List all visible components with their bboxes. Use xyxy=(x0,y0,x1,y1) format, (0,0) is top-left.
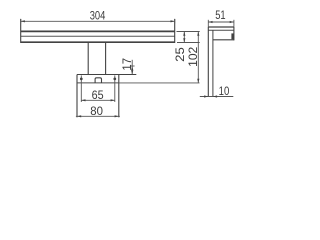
stem right edge xyxy=(105,43,107,75)
arrow 25 top xyxy=(183,32,185,36)
bracket left edge xyxy=(76,75,78,118)
arrow 80 left xyxy=(77,115,81,117)
dim line 25 xyxy=(183,32,185,43)
dim line 304 xyxy=(21,20,175,22)
stem left edge xyxy=(87,43,89,75)
dim line 102 xyxy=(197,32,199,83)
side right edge xyxy=(233,27,235,40)
ext tick 17 top xyxy=(130,65,135,67)
lamp bar top edge xyxy=(21,30,175,32)
lamp bar right edge xyxy=(174,19,176,43)
arrow 304 right xyxy=(171,20,175,22)
dim line 65 xyxy=(81,99,115,101)
side inner line xyxy=(208,29,234,31)
lamp bar bottom edge xyxy=(21,41,175,43)
svg-text:10: 10 xyxy=(219,85,230,98)
svg-text:304: 304 xyxy=(90,10,106,23)
dim line 10 xyxy=(200,96,234,98)
ext line bar bottom right xyxy=(177,42,200,44)
ext line bar top right xyxy=(177,31,200,33)
arrow 10 right (outside) xyxy=(213,95,217,97)
arrow 102 bottom xyxy=(197,79,199,83)
cable notch xyxy=(95,78,101,83)
arrow 102 top xyxy=(197,32,199,36)
screw hole right xyxy=(113,78,116,81)
arrow 51 left xyxy=(208,21,212,23)
ext tick left 304 xyxy=(20,19,22,24)
screw hole left xyxy=(80,78,83,81)
arrow 51 right xyxy=(230,21,234,23)
lamp bar inner seam xyxy=(21,35,175,37)
lamp bar left edge xyxy=(20,19,22,43)
arrow 80 right xyxy=(115,115,119,117)
LED end cap xyxy=(231,33,234,39)
svg-text:80: 80 xyxy=(90,105,103,118)
arrow 25 bottom xyxy=(183,38,185,42)
arrow 65 right xyxy=(111,99,115,101)
svg-text:65: 65 xyxy=(92,89,104,102)
screw ext line left xyxy=(80,75,82,102)
dim line 80 xyxy=(76,115,120,117)
arrow 65 left xyxy=(81,99,85,101)
dim line 51 xyxy=(208,21,234,23)
bracket right edge xyxy=(118,75,120,118)
arrow 17 bottom xyxy=(131,70,133,74)
ext tick left 51 xyxy=(207,20,209,27)
bracket seam + 102 ext xyxy=(77,82,119,84)
wall plate outer edge xyxy=(207,27,209,97)
bracket top edge + 17 ext xyxy=(77,74,136,76)
ext tick right 304 xyxy=(174,19,176,24)
svg-text:17: 17 xyxy=(121,58,134,71)
wall plate inner edge xyxy=(212,30,214,96)
side bottom line xyxy=(213,39,234,41)
side top edge xyxy=(208,26,234,28)
svg-text:51: 51 xyxy=(215,9,225,22)
svg-text:102: 102 xyxy=(186,46,200,66)
102 ext line xyxy=(119,82,200,84)
ext tick right 51 xyxy=(233,20,235,27)
arrow 10 left (outside) xyxy=(204,95,208,97)
arrow 304 left xyxy=(21,20,25,22)
svg-text:25: 25 xyxy=(173,47,186,62)
dim line 17 xyxy=(131,60,133,75)
arrow 17 top xyxy=(131,66,133,70)
screw ext line right xyxy=(114,75,116,102)
